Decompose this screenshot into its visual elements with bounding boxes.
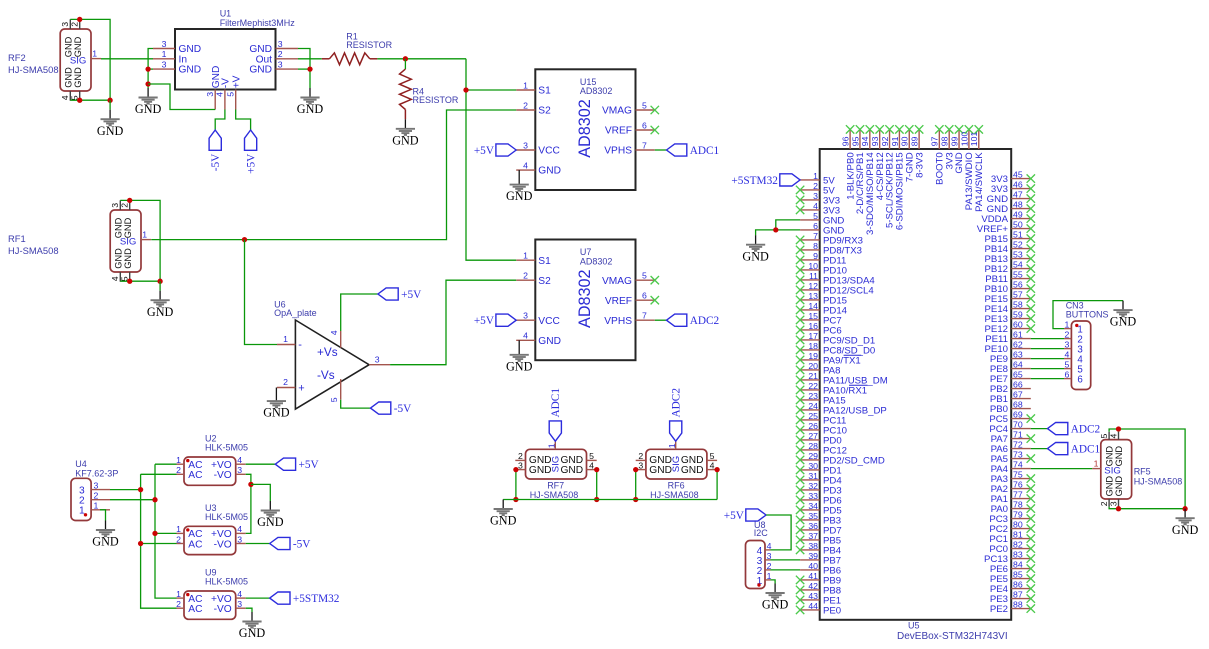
svg-text:5: 5 [329, 397, 339, 402]
label RF5 [1134, 466, 1183, 486]
svg-text:GND: GND [97, 124, 124, 138]
U5 pin 39 PB7 [800, 551, 841, 567]
wire U5 PA6 to ADC1 [1031, 448, 1048, 450]
svg-text:68: 68 [1013, 400, 1023, 410]
U5 pin 2 5V [796, 181, 835, 197]
U5 pin 1 5V [800, 171, 835, 187]
wire U5 GND pins 5/6 [776, 220, 800, 230]
svg-text:1: 1 [546, 443, 556, 448]
svg-text:I2C: I2C [754, 528, 769, 538]
junction U2 -VO ground tap [248, 482, 253, 487]
RF2 pin 2 [70, 19, 80, 29]
label U15 AD8302 [580, 77, 613, 96]
ground U1 right [297, 88, 324, 116]
wire +5V to U8 pin4 [766, 515, 791, 550]
svg-text:11: 11 [809, 271, 818, 281]
junction RF5 pin4 top [1116, 426, 1121, 431]
no-connect U15 VREF [651, 126, 659, 134]
svg-text:3: 3 [162, 60, 167, 70]
U8 pin1 marker dot [757, 583, 760, 586]
wire CN3 pin 5 to U5 [1031, 368, 1064, 370]
U5 pin 20 PA8 [796, 361, 841, 377]
wire CN3 pin1 to ground [1053, 301, 1123, 329]
junction RF7 pin3 [513, 467, 518, 472]
svg-text:62: 62 [1013, 340, 1023, 350]
svg-text:30: 30 [808, 461, 818, 471]
U5 pin 83 PC13 [984, 550, 1035, 566]
U5 pin 80 PC2 [989, 520, 1035, 536]
svg-text:8: 8 [813, 241, 818, 251]
power flag +5V [245, 130, 258, 174]
wire RF5 pins 2/3 bottom [1109, 507, 1185, 509]
svg-text:GND: GND [529, 465, 552, 476]
svg-text:GND: GND [506, 189, 533, 203]
RF2 pin 4 [60, 91, 70, 101]
svg-text:93: 93 [870, 136, 880, 146]
svg-text:66: 66 [1013, 380, 1023, 390]
svg-text:65: 65 [1013, 370, 1023, 380]
svg-text:RESISTOR: RESISTOR [413, 95, 459, 105]
svg-text:-5V: -5V [394, 403, 412, 415]
label R1 RESISTOR [346, 32, 392, 50]
U7 VCC +5V global label [474, 314, 516, 327]
svg-text:HLK-5M05: HLK-5M05 [205, 577, 248, 587]
svg-text:+5V: +5V [474, 315, 495, 327]
svg-text:+5V: +5V [246, 153, 258, 174]
svg-text:6: 6 [642, 291, 647, 301]
svg-text:4: 4 [523, 331, 528, 341]
svg-text:S1: S1 [538, 256, 551, 267]
wire U4 pin1 to ground [100, 510, 106, 521]
svg-text:HJ-SMA508: HJ-SMA508 [8, 64, 59, 75]
svg-text:+5STM32: +5STM32 [293, 593, 340, 605]
CN3 pin1 marker dot [1075, 324, 1078, 327]
U5 pin 97 BOOT0 (top) [930, 125, 946, 185]
svg-text:PE0: PE0 [823, 605, 841, 616]
svg-text:12: 12 [808, 281, 818, 291]
svg-text:ADC1: ADC1 [550, 388, 562, 418]
svg-text:81: 81 [1013, 530, 1023, 540]
svg-text:78: 78 [1013, 500, 1023, 510]
U5 pin 64 PE8 [990, 360, 1031, 376]
U5 pin 46 3V3 [991, 180, 1035, 196]
U5 pin 44 PE0 [796, 601, 841, 617]
U2 pin 4 +VO [211, 455, 246, 471]
label U5 DevEBox-STM32H743VI [897, 621, 1008, 642]
junction RF2 pin2 top [77, 17, 82, 22]
svg-text:86: 86 [1013, 580, 1023, 590]
wire RF2 SIG to U1 In [101, 58, 153, 60]
global label ADC1 (U15) [667, 144, 720, 157]
svg-text:AC: AC [188, 604, 202, 615]
svg-text:3: 3 [1065, 340, 1070, 350]
CN3 pin 3 [1064, 340, 1083, 356]
global label ADC1 (RF7) [549, 388, 562, 441]
svg-text:4: 4 [237, 455, 242, 465]
svg-text:GND: GND [1114, 446, 1124, 467]
svg-text:18: 18 [808, 341, 818, 351]
U7 pin 5 VMAG [602, 271, 655, 287]
svg-text:GND: GND [297, 102, 324, 116]
ground below R4 [392, 119, 419, 147]
RF5 pin 3 [1108, 499, 1118, 507]
U9 pin1 marker dot [186, 593, 189, 596]
op-amp U6 triangle [295, 320, 369, 409]
svg-text:53: 53 [1013, 250, 1023, 260]
svg-text:SIG: SIG [1104, 465, 1121, 476]
svg-text:SIG: SIG [70, 55, 87, 66]
U5 pin 47 GND [987, 190, 1035, 206]
svg-text:5: 5 [813, 211, 818, 221]
RF7 pin 4 [587, 460, 597, 470]
svg-text:RF2: RF2 [8, 52, 26, 63]
U5 pin 30 PD1 [796, 461, 842, 477]
svg-text:34: 34 [808, 501, 818, 511]
U5 pin 51 PB15 [985, 230, 1035, 246]
U9 pin 4 +VO [211, 589, 246, 605]
U5 pin 81 PC1 [989, 530, 1035, 546]
U5 pin 5 GND [800, 211, 844, 227]
svg-text:50: 50 [1013, 220, 1023, 230]
svg-text:SIG: SIG [551, 456, 562, 473]
connector RF5 HJ-SMA508 body [1101, 440, 1132, 499]
svg-text:S2: S2 [538, 276, 551, 287]
wire R1 node to U15 S1 and U7 S1 [466, 59, 516, 260]
U5 pin 26 PC10 [796, 421, 847, 437]
svg-text:ADC1: ADC1 [1071, 444, 1101, 456]
U4 pin 1 [79, 501, 110, 517]
ground below U9 [239, 612, 266, 640]
junction RF2 pin5 bottom [77, 98, 82, 103]
svg-text:ADC2: ADC2 [671, 388, 683, 418]
U5 pin 35 PB3 [796, 511, 841, 527]
svg-text:3: 3 [523, 140, 528, 150]
U5 pin 8 PD8/TX3 [796, 241, 862, 256]
U5 pin 79 PC3 [989, 510, 1035, 526]
wire U8 pin3 to U5 PB7 [771, 559, 801, 561]
svg-text:1: 1 [813, 171, 818, 181]
svg-text:GND: GND [1114, 476, 1124, 497]
U5 pin 75 PA3 [991, 470, 1035, 486]
svg-text:+V: +V [231, 75, 242, 88]
wire U6 +Vs to +5V [341, 294, 378, 331]
svg-text:76: 76 [1013, 480, 1023, 490]
svg-text:AD8302: AD8302 [580, 256, 613, 266]
svg-text:GND: GND [92, 535, 119, 549]
svg-text:80: 80 [1013, 520, 1023, 530]
junction U1 right GND [307, 66, 312, 71]
U5 pin 57 PE15 [985, 290, 1035, 306]
U5 pin 88 PE2 [990, 600, 1035, 616]
svg-text:+5V: +5V [474, 145, 495, 157]
svg-text:10: 10 [808, 261, 818, 271]
U5 pin 73 PA5 [991, 450, 1035, 466]
svg-text:5: 5 [642, 271, 647, 281]
svg-text:57: 57 [1013, 290, 1023, 300]
U2 pin 1 AC [176, 455, 202, 471]
svg-text:97: 97 [930, 136, 940, 146]
RF7 pin 5 [587, 451, 597, 461]
U5 pin 94 3-SDO/MISO/PB14 (top) [860, 125, 876, 235]
svg-text:-5V: -5V [210, 153, 222, 171]
U5 pin 19 PA9/TX1 [796, 351, 861, 367]
RF5 pin 1 SIG [1092, 459, 1101, 469]
label U9 HLK-5M05 [205, 568, 248, 587]
U5 pin 13 PD15 [796, 291, 847, 307]
RF6 pin 3 [636, 460, 646, 470]
U5 pin 28 PC12 [796, 441, 847, 457]
U1 pin 2 Out (right) [256, 49, 298, 65]
svg-text:71: 71 [1013, 430, 1023, 440]
RF7 pin 3 [515, 460, 525, 470]
ground U5 left [742, 235, 769, 263]
junction RF1 GND rail corner [157, 279, 162, 284]
U5 pin 43 PE1 [796, 591, 841, 607]
wire CN3 pin 6 to U5 [1031, 378, 1064, 380]
label U7 AD8302 [580, 247, 613, 266]
U5 pin 38 PB4 [796, 541, 842, 557]
svg-text:3: 3 [237, 599, 242, 609]
svg-text:2: 2 [176, 465, 181, 475]
svg-text:63: 63 [1013, 350, 1023, 360]
U5 pin 62 PE10 [985, 340, 1031, 356]
CN3 pin 4 [1064, 350, 1083, 366]
svg-text:89: 89 [910, 136, 920, 146]
svg-text:60: 60 [1013, 320, 1023, 330]
svg-text:HLK-5M05: HLK-5M05 [205, 443, 248, 453]
svg-text:GND: GND [73, 36, 83, 57]
label RF6 [650, 480, 699, 500]
svg-text:8-3V3: 8-3V3 [914, 152, 925, 178]
svg-text:59: 59 [1013, 310, 1023, 320]
junction RF7 pin4 bus [594, 497, 599, 502]
U4 pin 2 [79, 491, 110, 507]
global label +5V (U6) [378, 288, 422, 301]
U8 pin 4 [757, 541, 772, 557]
svg-text:1: 1 [162, 49, 167, 59]
U5 pin 98 3V3 (top) [940, 125, 956, 169]
label U2 HLK-5M05 [205, 434, 248, 453]
svg-text:RF7: RF7 [547, 480, 564, 490]
junction RF1 pin2 top [127, 198, 132, 203]
U5 pin 65 PE7 [990, 370, 1031, 386]
svg-text:4: 4 [237, 589, 242, 599]
svg-text:3: 3 [237, 465, 242, 475]
wire U9 -VO to ground [246, 608, 252, 612]
svg-text:91: 91 [890, 136, 900, 146]
svg-text:GND: GND [392, 133, 419, 147]
RF1 pin 5 [120, 272, 130, 282]
svg-text:33: 33 [808, 491, 818, 501]
U5 pin 78 PA0 [991, 500, 1035, 516]
svg-text:HLK-5M05: HLK-5M05 [205, 512, 248, 522]
U1 pin 5 +V (bottom) [226, 75, 243, 109]
CN3 pin 2 [1064, 330, 1083, 346]
svg-text:45: 45 [1013, 170, 1023, 180]
junction GND rail corner [107, 98, 112, 103]
wire U4 pin2 net to AC pins (rail B) [110, 499, 155, 501]
svg-text:1: 1 [176, 455, 181, 465]
svg-text:16: 16 [808, 321, 818, 331]
junction RF1 pin5 bottom [127, 279, 132, 284]
power module U9 HLK-5M05 body [184, 591, 236, 619]
svg-text:RF6: RF6 [668, 480, 685, 490]
U9 pin 1 AC [176, 589, 202, 605]
connector U8 I2C body [746, 541, 766, 589]
power module U2 HLK-5M05 body [184, 457, 236, 485]
svg-text:ADC2: ADC2 [1071, 424, 1101, 436]
wire CN3 pin 4 to U5 [1031, 358, 1064, 360]
svg-text:HJ-SMA508: HJ-SMA508 [1134, 476, 1183, 486]
ground U15 GND pin [506, 170, 533, 203]
global label ADC2 (U7) [667, 314, 720, 327]
U15 VCC +5V global label [474, 144, 516, 157]
svg-text:25: 25 [808, 411, 818, 421]
svg-text:+5STM32: +5STM32 [731, 175, 778, 187]
svg-text:6: 6 [1077, 374, 1082, 385]
svg-text:GND: GND [73, 67, 83, 88]
svg-text:2: 2 [94, 491, 99, 501]
svg-text:1: 1 [1094, 459, 1099, 469]
U2 pin 3 -VO [214, 465, 246, 481]
svg-text:51: 51 [1013, 230, 1023, 240]
ground U6 pin2 [263, 388, 290, 420]
svg-text:79: 79 [1013, 510, 1023, 520]
global label +5STM32 (U5 pin1) [731, 174, 800, 187]
U5 pin 40 PB6 [800, 561, 841, 577]
ground left of gnd bus [490, 500, 517, 528]
U5 pin 100 PA13/SWDIO (top) [959, 125, 975, 210]
svg-text:1: 1 [142, 230, 147, 240]
U8 pin 3 [757, 551, 772, 567]
svg-text:90: 90 [900, 136, 910, 146]
svg-text:KF7.62-3P: KF7.62-3P [75, 468, 118, 478]
global label ADC2 (RF6) [670, 388, 683, 442]
terminal block U4 body [71, 478, 91, 520]
label U1 FilterMephist3MHz [220, 9, 296, 29]
svg-text:-V: -V [221, 78, 232, 88]
junction U1 left GND [145, 66, 150, 71]
svg-text:27: 27 [808, 431, 818, 441]
U5 pin 49 VDDA [981, 210, 1035, 226]
svg-text:3: 3 [1108, 501, 1118, 506]
U3 pin 3 -VO [214, 534, 246, 550]
ground U1 left [135, 88, 162, 116]
svg-text:4: 4 [813, 201, 818, 211]
RF1 pin 3 [110, 200, 120, 210]
svg-text:2: 2 [278, 49, 283, 59]
svg-text:OpA_plate: OpA_plate [274, 308, 317, 318]
svg-text:PE2: PE2 [990, 604, 1008, 615]
U15 pin 7 VPHS [604, 140, 655, 156]
U5 pin 82 PC0 [989, 540, 1035, 556]
CN3 pin 5 [1064, 360, 1083, 376]
U7 pin 6 VREF [605, 291, 655, 307]
svg-text:U1: U1 [220, 9, 232, 19]
junction RF6 pin4 [714, 467, 719, 472]
wire rail B branch to U3 AC1 [155, 532, 177, 534]
svg-text:5: 5 [1065, 360, 1070, 370]
wire RF2 pins 2/3 top to GND rail [70, 19, 110, 100]
svg-text:ADC1: ADC1 [690, 145, 720, 157]
svg-text:6: 6 [1065, 370, 1070, 380]
svg-text:82: 82 [1013, 540, 1023, 550]
ground U7 GND pin [506, 340, 533, 373]
U5 pin 21 PA11/USB_DM [796, 371, 888, 387]
RF2 pin 5 [70, 91, 80, 101]
svg-text:RESISTOR: RESISTOR [346, 40, 392, 50]
U6 pin 4 +Vs [329, 330, 341, 348]
U5 pin 54 PB12 [985, 260, 1035, 276]
svg-text:55: 55 [1013, 270, 1023, 280]
global label ADC1 (U5) [1048, 443, 1101, 456]
svg-text:PA14/SWCLK: PA14/SWCLK [974, 152, 985, 212]
svg-text:GND: GND [263, 406, 290, 420]
U5 pin 58 PE14 [985, 300, 1035, 316]
svg-text:4: 4 [237, 524, 242, 534]
svg-text:VMAG: VMAG [602, 106, 632, 117]
U5 pin 45 3V3 [991, 170, 1035, 186]
U5 pin 25 PC11 [796, 411, 846, 427]
svg-text:2: 2 [120, 203, 130, 208]
U3 pin 2 AC [176, 534, 202, 550]
wire U1 -V pin to -5V flag [215, 110, 225, 131]
svg-text:85: 85 [1013, 570, 1023, 580]
op-chip U7 AD8302 body [535, 240, 635, 361]
svg-text:36: 36 [808, 521, 818, 531]
svg-text:+5V: +5V [299, 459, 320, 471]
U15 pin 4 GND [516, 161, 561, 177]
junction rail A at U4 pin3 [138, 487, 143, 492]
svg-text:3: 3 [638, 460, 643, 470]
ground below U8 [762, 584, 789, 612]
U7 pin 4 GND [516, 331, 561, 347]
U5 pin 87 PE3 [990, 590, 1035, 606]
no-connect U15 VMAG [651, 106, 659, 114]
svg-text:S1: S1 [538, 86, 551, 97]
junction rail A at U3 AC2 [138, 541, 143, 546]
U8 pin 2 [757, 561, 772, 577]
gnd bus under RF7/RF6 [503, 499, 717, 501]
U5 pin 42 PB8 [796, 581, 841, 597]
U5 pin 70 PC4 [989, 420, 1030, 436]
U5 pin 18 PC8/SD_D0 [796, 341, 875, 357]
svg-text:HJ-SMA508: HJ-SMA508 [8, 245, 59, 256]
U5 pin 41 PB9 [796, 571, 841, 587]
RF6 pin 2 [636, 451, 646, 461]
svg-text:19: 19 [808, 351, 818, 361]
svg-text:+5V: +5V [401, 289, 422, 301]
svg-text:GND: GND [762, 598, 789, 612]
global label -5V (U6) [371, 402, 413, 415]
svg-text:3: 3 [518, 460, 523, 470]
U5 pin 32 PD3 [796, 481, 842, 497]
svg-text:GND: GND [538, 166, 561, 177]
svg-text:29: 29 [808, 451, 818, 461]
U5 pin 48 GND [987, 200, 1035, 216]
RF7 pin 1 SIG [546, 441, 556, 449]
label U6 OpA_plate [274, 300, 317, 318]
junction RF6 pin3 bus [633, 497, 638, 502]
RF1 pin 2 [120, 200, 130, 210]
resistor R1 [322, 53, 378, 65]
RF5 pin 4 [1108, 432, 1118, 440]
svg-text:2: 2 [176, 534, 181, 544]
U5 pin 67 PB1 [990, 390, 1031, 406]
U5 pin 92 5-SCL/SCK/PB12 (top) [880, 125, 896, 228]
svg-text:100: 100 [959, 132, 969, 147]
svg-text:69: 69 [1013, 410, 1023, 420]
